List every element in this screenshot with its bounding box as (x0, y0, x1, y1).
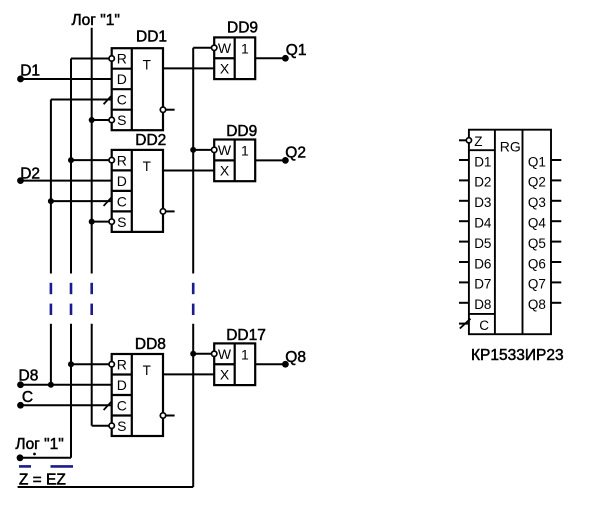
svg-text:S: S (117, 112, 126, 128)
svg-text:D3: D3 (474, 195, 491, 210)
svg-text:D2: D2 (20, 166, 40, 183)
IC pin C (459, 323, 469, 325)
node junction C bus end on D8 wire (48, 382, 54, 388)
inversion bubble W input DD9 (212, 45, 217, 50)
svg-text:X: X (220, 163, 230, 179)
node terminal Q8 (282, 361, 289, 368)
wire DD8 output to DD17 X (163, 373, 214, 375)
svg-text:D5: D5 (474, 236, 491, 251)
wire DD1 C input (51, 98, 112, 100)
inversion bubble R input DD8 (109, 362, 114, 367)
wire DD8 R input (71, 363, 109, 365)
trigger DD1 (112, 48, 163, 130)
inversion bubble W input DD17 (212, 351, 217, 356)
wire Z bus to DD17 W input (193, 353, 211, 355)
node terminal C (17, 402, 24, 409)
inversion bubble R input DD2 (109, 157, 114, 162)
svg-text:R: R (117, 152, 127, 168)
IC pin D6 (459, 261, 469, 263)
svg-text:X: X (220, 61, 230, 77)
buffer DD9 (214, 140, 255, 182)
IC pin Q8 (551, 302, 561, 304)
IC pin D4 (459, 220, 469, 222)
svg-text:Q8: Q8 (285, 349, 306, 366)
wire S bus from upper Log "1" lower segment (91, 324, 93, 426)
wire DD1 R input (71, 57, 109, 59)
wire lower Log "1" feed (20, 457, 71, 459)
node junction DD2 C on C bus (48, 198, 54, 204)
IC pin D5 (459, 241, 469, 243)
svg-text:D1: D1 (474, 154, 491, 169)
inversion bubble S input DD8 (109, 423, 114, 428)
wire R bus from lower Log "1" upper segment (70, 58, 72, 273)
svg-text:КР1533ИР23: КР1533ИР23 (471, 347, 564, 364)
IC pin D2 (459, 179, 469, 181)
IC pin Q4 (551, 220, 561, 222)
wire D8 to DD8 D input (21, 384, 112, 386)
trigger DD8 (112, 354, 163, 436)
svg-text:Q2: Q2 (528, 175, 546, 190)
svg-text:W: W (218, 40, 232, 56)
IC Z input inversion bubble (466, 138, 471, 143)
svg-text:D8: D8 (474, 297, 491, 312)
wire C bus dashed break (50, 283, 53, 294)
svg-text:DD9: DD9 (227, 19, 258, 36)
IC pin Q7 (551, 281, 561, 283)
svg-text:Q7: Q7 (528, 277, 546, 292)
wire C to DD8 C input (21, 404, 112, 406)
node junction second DD9 W on Z bus (190, 147, 196, 153)
wire R bus from lower Log "1" dashed break (70, 283, 73, 294)
IC pin Q2 (551, 179, 561, 181)
svg-text:D: D (117, 173, 127, 189)
svg-text:D6: D6 (474, 256, 491, 271)
svg-text:RG: RG (500, 138, 521, 154)
node terminal D1 (17, 76, 24, 83)
svg-text:D1: D1 (20, 63, 40, 80)
IC dynamic C input slash (460, 319, 471, 329)
IC pin D1 (459, 159, 469, 161)
svg-text:Z = EZ: Z = EZ (19, 472, 66, 489)
wire DD8 S input (92, 425, 109, 427)
svg-text:DD9: DD9 (226, 123, 257, 140)
wire DD9 output to Q1 (255, 57, 285, 59)
svg-text:W: W (218, 346, 232, 362)
wire DD1 output to DD9 X (163, 67, 214, 69)
IC pin Q6 (551, 261, 561, 263)
buffer DD9 (214, 37, 255, 79)
inversion bubble S input DD2 (109, 219, 114, 224)
IC pin Q3 (551, 200, 561, 202)
wire C bus lower segment (50, 324, 52, 385)
inversion bubble W input DD9 (212, 147, 217, 152)
overbar over EZ (blue) (51, 465, 74, 468)
svg-text:Q6: Q6 (528, 256, 546, 271)
wire DD2 R input (71, 159, 109, 161)
svg-text:D4: D4 (474, 216, 492, 231)
dynamic C input slash DD1 (104, 95, 112, 104)
node junction DD8 R on R bus (68, 361, 74, 367)
inverted output bubble DD2 (160, 209, 165, 214)
buffer DD17 (214, 343, 255, 385)
svg-text:DD2: DD2 (135, 132, 166, 149)
inverted output bubble DD1 (160, 107, 165, 112)
inverted output stub DD2 (166, 210, 175, 212)
svg-text:Q4: Q4 (528, 216, 547, 231)
svg-text:S: S (117, 214, 126, 230)
svg-text:W: W (218, 142, 232, 158)
dynamic C input slash DD8 (104, 401, 112, 410)
node terminal D8 (17, 381, 24, 388)
svg-text:T: T (143, 363, 151, 378)
wire D2 to DD2 D input (21, 180, 112, 182)
inversion bubble S input DD1 (109, 117, 114, 122)
inverted output bubble DD8 (160, 413, 165, 418)
wire S bus from upper Log "1" upper segment (91, 28, 93, 274)
svg-text:Q1: Q1 (286, 42, 307, 59)
svg-text:R: R (117, 356, 127, 372)
svg-text:T: T (143, 57, 151, 72)
svg-text:Лог "1": Лог "1" (15, 436, 63, 453)
svg-text:D2: D2 (474, 175, 491, 190)
IC pin labels (474, 134, 546, 333)
svg-text:Q2: Q2 (285, 144, 306, 161)
IC pin D3 (459, 200, 469, 202)
svg-text:D: D (117, 71, 127, 87)
svg-text:R: R (117, 51, 127, 67)
svg-text:Z: Z (474, 134, 482, 149)
node terminal Q2 (282, 157, 289, 164)
stray dot under lower Log "1" (33, 453, 36, 456)
wire DD2 C input (51, 200, 112, 202)
inversion bubble R input DD1 (109, 56, 114, 61)
svg-text:S: S (117, 418, 126, 434)
wire Z bus (output enable) upper segment (192, 48, 194, 274)
svg-text:X: X (220, 367, 230, 383)
svg-text:D8: D8 (19, 367, 39, 384)
wire DD9 output to Q2 (255, 159, 285, 161)
svg-text:1: 1 (241, 346, 249, 362)
node junction DD2 S on S bus (89, 219, 95, 225)
svg-text:C: C (117, 193, 127, 209)
svg-text:Q8: Q8 (528, 297, 546, 312)
svg-text:DD8: DD8 (135, 336, 166, 353)
wire S bus from upper Log "1" dashed break (90, 283, 93, 294)
wire DD2 output to DD9 X (163, 170, 214, 172)
IC pin Z (459, 139, 467, 141)
svg-text:Q5: Q5 (528, 236, 546, 251)
wire DD17 output to Q8 (255, 363, 285, 365)
overbar over Z (blue) (19, 465, 31, 468)
svg-text:Q3: Q3 (528, 195, 546, 210)
wire DD1 S input (92, 119, 109, 121)
wire Z = EZ feed (18, 486, 194, 488)
dynamic C input slash DD2 (104, 197, 112, 206)
wire Z bus to second DD9 W input (193, 149, 211, 151)
svg-text:T: T (143, 159, 151, 174)
wire Z bus (output enable) dashed break (192, 283, 195, 294)
inverted output stub DD8 (166, 415, 175, 417)
node junction DD2 R on R bus (68, 157, 74, 163)
wire DD2 S input (92, 221, 109, 223)
svg-text:1: 1 (241, 143, 249, 159)
IC pin Q1 (551, 159, 561, 161)
svg-text:1: 1 (241, 40, 249, 56)
wire D1 to DD1 D input (21, 78, 112, 80)
node terminal Q1 (282, 55, 289, 62)
wire R bus from lower Log "1" lower segment (70, 324, 72, 458)
svg-text:DD17: DD17 (226, 327, 266, 344)
svg-text:D7: D7 (474, 277, 491, 292)
svg-text:DD1: DD1 (136, 29, 167, 46)
IC U1 KR1533IR23 body (469, 130, 551, 335)
inverted output stub DD1 (166, 109, 175, 111)
node junction DD1 S on S bus (89, 117, 95, 123)
trigger DD2 (112, 150, 163, 232)
svg-text:D: D (117, 377, 127, 393)
svg-text:C: C (117, 397, 127, 413)
IC pin D8 (459, 302, 469, 304)
wire C bus upper segment (50, 99, 52, 273)
svg-text:Лог "1": Лог "1" (72, 12, 120, 29)
node terminal D2 (17, 177, 24, 184)
svg-text:Q1: Q1 (528, 154, 546, 169)
node junction DD17 W on Z bus (190, 351, 196, 357)
IC pin D7 (459, 281, 469, 283)
node terminal lower Log "1" (17, 454, 24, 461)
wire Z bus to DD9 W input (193, 47, 211, 49)
svg-text:C: C (479, 318, 489, 333)
IC pin Q5 (551, 241, 561, 243)
svg-text:C: C (117, 92, 127, 108)
wire Z bus (output enable) lower segment (192, 324, 194, 487)
svg-text:C: C (22, 389, 33, 406)
